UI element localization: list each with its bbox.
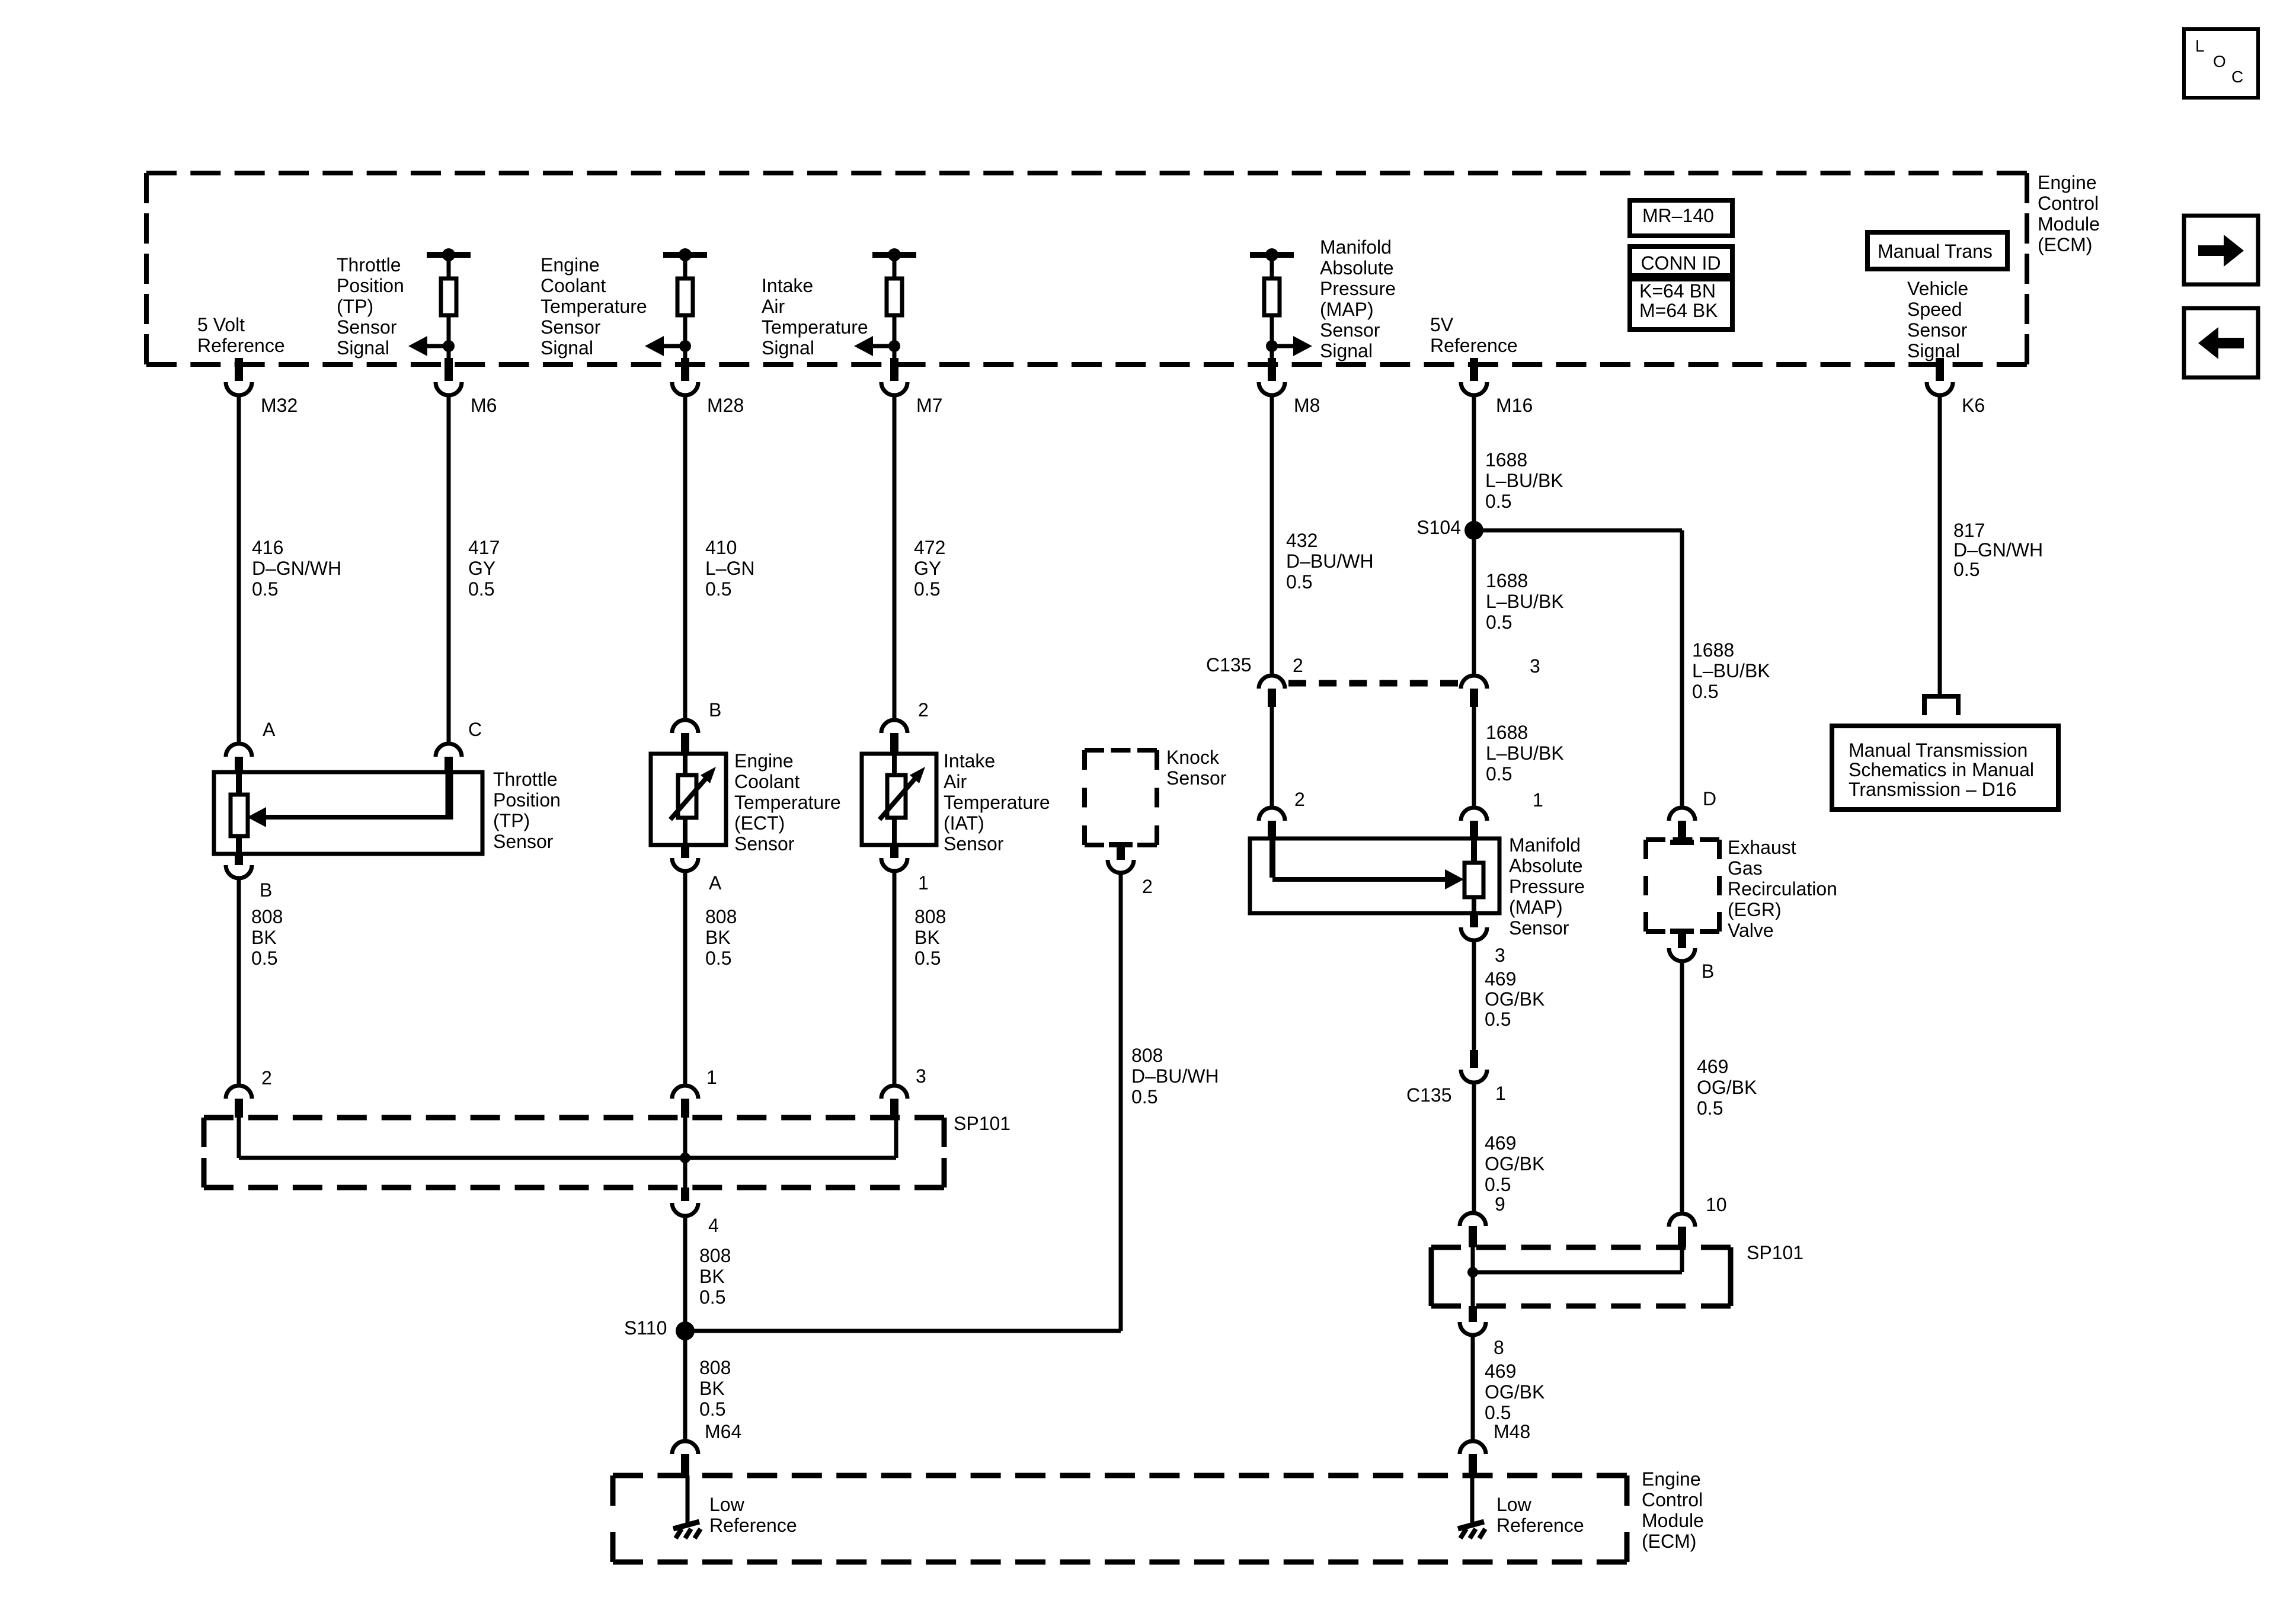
svg-text:2: 2 [261, 1067, 272, 1089]
svg-text:0.5: 0.5 [468, 578, 494, 600]
svg-text:Intake: Intake [944, 750, 995, 772]
svg-text:1688: 1688 [1486, 722, 1528, 743]
svg-text:Sensor: Sensor [1166, 767, 1227, 789]
svg-text:Control: Control [2038, 193, 2099, 214]
svg-text:10: 10 [1706, 1194, 1727, 1215]
svg-text:M8: M8 [1294, 395, 1320, 416]
svg-text:0.5: 0.5 [1485, 491, 1511, 512]
svg-text:Signal: Signal [337, 337, 389, 359]
svg-text:OG/BK: OG/BK [1485, 1153, 1544, 1174]
svg-text:0.5: 0.5 [1486, 612, 1512, 633]
svg-text:0.5: 0.5 [252, 578, 278, 600]
svg-text:410: 410 [705, 537, 737, 558]
svg-text:Sensor: Sensor [734, 833, 795, 854]
svg-text:Intake: Intake [762, 275, 813, 296]
svg-text:Manifold: Manifold [1320, 236, 1392, 258]
svg-text:Exhaust: Exhaust [1728, 837, 1796, 858]
svg-text:Manifold: Manifold [1509, 834, 1581, 856]
svg-text:SP101: SP101 [1747, 1242, 1803, 1263]
svg-text:D–BU/WH: D–BU/WH [1286, 550, 1374, 572]
svg-text:Vehicle: Vehicle [1907, 278, 1968, 299]
svg-text:K=64 BN: K=64 BN [1639, 280, 1716, 302]
svg-text:C135: C135 [1206, 654, 1252, 676]
svg-text:416: 416 [252, 537, 283, 558]
svg-text:A: A [263, 719, 276, 740]
svg-text:Signal: Signal [1320, 340, 1373, 361]
svg-text:(ECM): (ECM) [1642, 1531, 1696, 1552]
svg-text:Manual Transmission: Manual Transmission [1849, 740, 2028, 761]
svg-text:417: 417 [468, 537, 500, 558]
svg-text:Air: Air [762, 296, 785, 317]
svg-text:0.5: 0.5 [1286, 571, 1312, 593]
svg-text:9: 9 [1495, 1193, 1505, 1215]
svg-text:Knock: Knock [1166, 747, 1220, 768]
svg-text:808: 808 [251, 906, 283, 927]
svg-text:0.5: 0.5 [1485, 1402, 1511, 1423]
svg-text:M16: M16 [1496, 395, 1533, 416]
svg-text:808: 808 [699, 1357, 731, 1378]
svg-text:SP101: SP101 [954, 1113, 1011, 1134]
svg-text:Engine: Engine [541, 254, 600, 276]
svg-text:Reference: Reference [709, 1515, 797, 1536]
svg-text:0.5: 0.5 [914, 578, 940, 600]
svg-text:0.5: 0.5 [914, 948, 941, 969]
svg-text:0.5: 0.5 [251, 948, 277, 969]
svg-text:Temperature: Temperature [541, 296, 647, 317]
svg-text:BK: BK [699, 1266, 725, 1287]
svg-text:D–BU/WH: D–BU/WH [1131, 1065, 1219, 1087]
svg-text:808: 808 [699, 1245, 731, 1266]
svg-text:S110: S110 [624, 1317, 667, 1339]
svg-text:D: D [1703, 788, 1716, 809]
svg-text:1688: 1688 [1486, 570, 1528, 591]
svg-text:Signal: Signal [762, 337, 814, 359]
svg-text:Reference: Reference [1496, 1515, 1584, 1536]
svg-text:1: 1 [1533, 789, 1543, 811]
svg-text:8: 8 [1494, 1337, 1504, 1358]
svg-text:L–GN: L–GN [705, 558, 755, 579]
svg-text:OG/BK: OG/BK [1485, 1381, 1544, 1403]
svg-text:2: 2 [1293, 655, 1303, 676]
svg-text:Absolute: Absolute [1509, 855, 1583, 876]
svg-text:(MAP): (MAP) [1320, 299, 1374, 320]
svg-text:B: B [260, 879, 272, 901]
svg-text:808: 808 [705, 906, 737, 927]
svg-text:Reference: Reference [197, 335, 285, 356]
svg-text:Signal: Signal [1907, 340, 1960, 361]
svg-text:3: 3 [1495, 945, 1505, 966]
svg-text:Absolute: Absolute [1320, 257, 1394, 279]
svg-text:(TP): (TP) [493, 810, 530, 831]
svg-text:M64: M64 [705, 1421, 741, 1442]
svg-text:M7: M7 [916, 395, 942, 416]
svg-text:M6: M6 [471, 395, 497, 416]
svg-text:M32: M32 [261, 395, 298, 416]
svg-text:S104: S104 [1416, 517, 1461, 538]
svg-text:Signal: Signal [541, 337, 593, 359]
svg-text:2: 2 [1142, 876, 1153, 897]
svg-text:0.5: 0.5 [1486, 763, 1512, 785]
svg-text:(ECM): (ECM) [2038, 234, 2092, 255]
svg-text:O: O [2213, 52, 2226, 71]
svg-text:Sensor: Sensor [1509, 917, 1569, 939]
svg-text:817: 817 [1953, 520, 1985, 541]
svg-text:2: 2 [918, 699, 929, 721]
svg-text:432: 432 [1286, 530, 1318, 551]
svg-text:(ECT): (ECT) [734, 812, 785, 834]
svg-text:0.5: 0.5 [1953, 559, 1980, 580]
svg-text:Sensor: Sensor [1907, 319, 1968, 341]
svg-text:M=64 BK: M=64 BK [1639, 300, 1718, 321]
svg-text:(IAT): (IAT) [944, 812, 984, 834]
svg-text:5 Volt: 5 Volt [197, 314, 245, 335]
svg-text:B: B [1702, 961, 1714, 982]
svg-text:1: 1 [706, 1067, 717, 1088]
svg-text:Coolant: Coolant [541, 275, 606, 296]
svg-text:0.5: 0.5 [699, 1398, 725, 1420]
svg-text:Schematics in Manual: Schematics in Manual [1849, 759, 2034, 780]
svg-text:C: C [2231, 68, 2243, 86]
svg-text:808: 808 [914, 906, 946, 927]
svg-text:Recirculation: Recirculation [1728, 878, 1837, 900]
svg-text:1: 1 [1495, 1083, 1506, 1104]
svg-text:Low: Low [1496, 1494, 1532, 1515]
svg-text:MR–140: MR–140 [1642, 205, 1714, 226]
svg-text:C: C [468, 719, 482, 740]
svg-text:(EGR): (EGR) [1728, 899, 1782, 920]
svg-text:L–BU/BK: L–BU/BK [1692, 660, 1770, 681]
svg-text:1: 1 [918, 872, 929, 894]
svg-text:Low: Low [709, 1494, 745, 1515]
svg-text:4: 4 [708, 1215, 719, 1236]
svg-text:3: 3 [1530, 655, 1540, 677]
svg-text:469: 469 [1485, 1361, 1516, 1382]
svg-text:0.5: 0.5 [699, 1286, 725, 1308]
svg-text:Position: Position [493, 789, 561, 811]
svg-text:Sensor: Sensor [493, 831, 554, 852]
svg-text:Coolant: Coolant [734, 771, 800, 792]
svg-text:Speed: Speed [1907, 299, 1962, 320]
svg-text:BK: BK [699, 1378, 725, 1399]
svg-text:BK: BK [251, 927, 277, 948]
svg-text:(MAP): (MAP) [1509, 897, 1563, 918]
svg-text:Throttle: Throttle [493, 769, 557, 790]
svg-text:Sensor: Sensor [944, 833, 1004, 854]
svg-text:L–BU/BK: L–BU/BK [1486, 591, 1564, 612]
svg-text:Module: Module [2038, 213, 2100, 235]
svg-text:Temperature: Temperature [944, 792, 1050, 813]
svg-text:Engine: Engine [734, 750, 794, 772]
svg-text:K6: K6 [1962, 395, 1985, 416]
svg-text:D–GN/WH: D–GN/WH [1953, 539, 2043, 561]
svg-text:0.5: 0.5 [1485, 1009, 1511, 1030]
svg-text:Manual Trans: Manual Trans [1878, 241, 1993, 262]
svg-text:Throttle: Throttle [337, 254, 401, 276]
svg-text:1688: 1688 [1485, 449, 1527, 470]
svg-text:OG/BK: OG/BK [1485, 988, 1544, 1010]
svg-text:Pressure: Pressure [1320, 278, 1396, 299]
svg-text:GY: GY [468, 558, 495, 579]
svg-text:Engine: Engine [1642, 1468, 1701, 1490]
svg-text:Sensor: Sensor [337, 316, 397, 338]
svg-text:Transmission – D16: Transmission – D16 [1849, 779, 2016, 800]
svg-text:469: 469 [1485, 968, 1516, 990]
svg-text:0.5: 0.5 [1697, 1097, 1723, 1119]
svg-text:Reference: Reference [1430, 335, 1518, 356]
svg-text:M28: M28 [707, 395, 744, 416]
svg-text:Valve: Valve [1728, 920, 1774, 941]
svg-text:BK: BK [705, 927, 731, 948]
svg-text:C135: C135 [1406, 1084, 1452, 1106]
svg-text:Temperature: Temperature [762, 316, 868, 338]
svg-text:D–GN/WH: D–GN/WH [252, 558, 341, 579]
svg-text:BK: BK [914, 927, 940, 948]
svg-text:469: 469 [1485, 1132, 1516, 1154]
svg-text:0.5: 0.5 [705, 948, 731, 969]
svg-text:OG/BK: OG/BK [1697, 1077, 1757, 1098]
svg-text:808: 808 [1131, 1045, 1163, 1066]
svg-text:0.5: 0.5 [1131, 1086, 1157, 1108]
svg-text:469: 469 [1697, 1056, 1728, 1077]
svg-text:Sensor: Sensor [1320, 319, 1380, 341]
svg-text:0.5: 0.5 [1485, 1174, 1511, 1195]
svg-text:0.5: 0.5 [1692, 681, 1718, 702]
svg-text:Temperature: Temperature [734, 792, 841, 813]
svg-text:Module: Module [1642, 1510, 1704, 1531]
svg-text:L: L [2195, 37, 2205, 55]
svg-text:Gas: Gas [1728, 857, 1763, 879]
svg-text:Sensor: Sensor [541, 316, 601, 338]
svg-text:2: 2 [1294, 789, 1305, 810]
svg-text:Control: Control [1642, 1489, 1703, 1510]
svg-text:Position: Position [337, 275, 404, 296]
svg-text:1688: 1688 [1692, 639, 1734, 661]
svg-text:Engine: Engine [2038, 172, 2097, 193]
svg-text:A: A [709, 872, 722, 894]
svg-text:L–BU/BK: L–BU/BK [1485, 470, 1563, 491]
svg-text:CONN ID: CONN ID [1641, 252, 1721, 274]
svg-text:M48: M48 [1494, 1421, 1530, 1442]
svg-text:0.5: 0.5 [705, 578, 731, 600]
svg-text:GY: GY [914, 558, 941, 579]
svg-text:5V: 5V [1430, 314, 1454, 335]
svg-text:L–BU/BK: L–BU/BK [1486, 742, 1564, 764]
svg-text:B: B [709, 699, 721, 721]
svg-text:(TP): (TP) [337, 296, 373, 317]
svg-text:Pressure: Pressure [1509, 876, 1585, 897]
svg-text:Air: Air [944, 771, 967, 792]
svg-text:3: 3 [916, 1065, 926, 1087]
svg-text:472: 472 [914, 537, 945, 558]
